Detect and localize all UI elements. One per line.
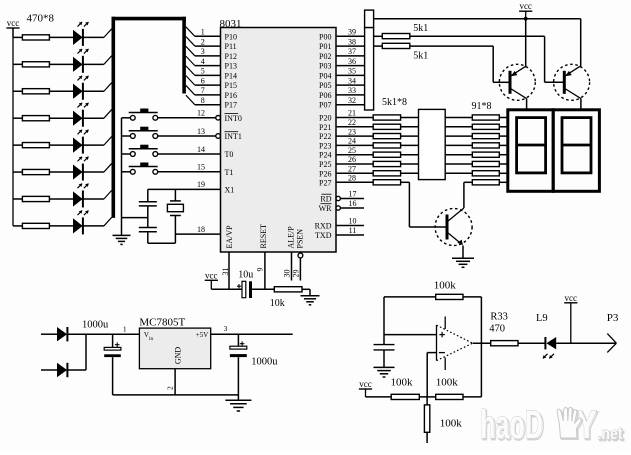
- svg-text:INT1: INT1: [225, 132, 242, 141]
- LED D5: [73, 130, 89, 154]
- wire pin 37 P02 to network RP1: [336, 55, 365, 57]
- wire RN91-1 to display: [499, 117, 508, 119]
- wire RP2-8 to Q3 base: [401, 182, 446, 227]
- svg-text:14: 14: [197, 145, 205, 154]
- pin number 14: [197, 145, 205, 154]
- wire RP1 common to VCC rail: [374, 18, 581, 20]
- svg-text:18: 18: [197, 225, 205, 234]
- pin number 13: [197, 127, 205, 136]
- wire RN91-8 to display: [499, 181, 508, 183]
- svg-text:P10: P10: [225, 32, 237, 41]
- pin number 34: [348, 76, 356, 85]
- pin number 19: [197, 180, 205, 189]
- wire Q3 emitter to ground: [462, 246, 464, 259]
- ground power supply: [225, 395, 251, 411]
- svg-text:10u: 10u: [238, 270, 253, 281]
- P1 bus left vertical: [112, 17, 116, 218]
- pin name RD: [320, 194, 331, 203]
- resistor network RP1 top segment: [365, 10, 374, 28]
- pin name P26: [319, 169, 331, 178]
- pin number 37: [348, 47, 356, 56]
- wire inverting input: [427, 353, 436, 397]
- pin name WR: [319, 204, 333, 213]
- svg-text:T1: T1: [225, 168, 234, 177]
- wire Q1 emitter: [525, 19, 527, 68]
- pin number 24: [348, 137, 356, 146]
- svg-text:3: 3: [201, 47, 205, 56]
- wire pin 18 X2: [175, 233, 220, 235]
- wire pin 36 P03 to network RP1: [336, 65, 365, 67]
- pin number 8: [201, 96, 205, 105]
- wire Q3 collector to RN91-8: [464, 182, 472, 208]
- pin name P05: [319, 81, 331, 90]
- capacitor C4 1000u: [104, 334, 121, 395]
- resistor RP2-7 5k1: [373, 171, 400, 176]
- resistor RN91-3 91: [472, 134, 499, 139]
- pin name P27: [319, 178, 331, 187]
- pin name INT0: [225, 114, 242, 123]
- wire pin 17 RD: [336, 196, 364, 200]
- pin number 29 rotated: [291, 270, 300, 278]
- resistor R4 470: [13, 116, 73, 121]
- pin name RXD: [315, 222, 332, 231]
- svg-text:24: 24: [348, 137, 356, 146]
- pin name INT1: [225, 132, 242, 141]
- svg-text:15: 15: [197, 163, 205, 172]
- resistor 100k vertical: [424, 397, 462, 443]
- pin name P20: [319, 114, 331, 123]
- svg-text:RXD: RXD: [315, 222, 332, 231]
- wire pin 31 EA/VP: [228, 252, 230, 289]
- switch S2: [122, 127, 158, 139]
- pin number 31 rotated: [221, 268, 230, 276]
- resistor R7 470: [13, 196, 73, 201]
- wire buffer to RN91-1: [445, 117, 472, 119]
- resistor RN91-7 91: [472, 171, 499, 176]
- svg-text:haoD: haoD: [480, 403, 543, 447]
- ground C6: [374, 367, 395, 377]
- pin name RESET rotated: [259, 224, 268, 249]
- wire LED D5 cathode to bus entry: [83, 137, 112, 146]
- wire pin 2 regulator down: [174, 369, 176, 395]
- resistor R3 470: [13, 89, 73, 94]
- ground reset circuit: [301, 296, 320, 305]
- svg-text:10: 10: [349, 216, 357, 225]
- svg-text:12: 12: [197, 109, 205, 118]
- wire pin 35 P04 to network RP1: [336, 74, 365, 76]
- svg-text:P07: P07: [319, 101, 331, 110]
- svg-text:P15: P15: [225, 81, 237, 90]
- svg-text:28: 28: [348, 174, 356, 183]
- wire pin 24 P23: [336, 144, 373, 146]
- svg-text:vcc: vcc: [565, 293, 578, 303]
- svg-text:P27: P27: [319, 178, 331, 187]
- LED L9: [536, 313, 556, 359]
- svg-text:GND: GND: [173, 347, 182, 365]
- wire D9 to regulator: [67, 333, 139, 335]
- svg-text:vcc: vcc: [359, 379, 372, 389]
- svg-text:P17: P17: [225, 101, 237, 110]
- capacitor C6: [374, 335, 395, 368]
- pin name T0: [225, 150, 234, 159]
- pin number 32: [348, 96, 356, 105]
- wire feedback right down: [480, 297, 482, 397]
- svg-text:470: 470: [489, 323, 505, 334]
- op 8031 MCU U1 body: [221, 28, 337, 253]
- resistor R6 470: [13, 169, 73, 174]
- resistor RN91-6 91: [472, 161, 499, 166]
- svg-text:35: 35: [348, 67, 356, 76]
- pin number 11: [349, 226, 357, 235]
- wire bus exit to pin 5 P14: [186, 66, 221, 76]
- resistor 100k feedback: [384, 279, 481, 299]
- pin name P02: [319, 52, 331, 61]
- svg-text:31: 31: [221, 268, 230, 276]
- wire Q2 emitter: [580, 19, 582, 68]
- svg-text:27: 27: [348, 165, 356, 174]
- svg-text:26: 26: [348, 155, 356, 164]
- wire pin 39 P00 to network RP1: [336, 35, 365, 37]
- pin name P14: [225, 71, 237, 80]
- svg-text:16: 16: [349, 199, 357, 208]
- VCC symbol left rail: [6, 18, 19, 37]
- svg-text:MC7805T: MC7805T: [139, 316, 185, 328]
- svg-text:5k1*8: 5k1*8: [382, 97, 407, 108]
- svg-text:10k: 10k: [270, 298, 285, 309]
- pin name P06: [319, 91, 331, 100]
- resistor 100k bias left: [366, 377, 436, 400]
- wire RN91-4 to display: [499, 144, 508, 146]
- pin number 1 regulator: [123, 325, 127, 334]
- resistor R2 470: [13, 62, 73, 67]
- wire pin 30 ALE/P: [291, 252, 293, 281]
- svg-text:P06: P06: [319, 91, 331, 100]
- wire bus exit to pin 3 P12: [186, 46, 221, 56]
- pin name P03: [319, 62, 331, 71]
- svg-text:P01: P01: [319, 42, 331, 51]
- wire RP2-6 to buffer: [401, 163, 419, 165]
- pin number 39: [348, 28, 356, 37]
- svg-text:100k: 100k: [434, 279, 457, 291]
- svg-text:100k: 100k: [440, 418, 463, 430]
- svg-text:P16: P16: [225, 91, 237, 100]
- wire 5k1 upper to Q2 base: [410, 36, 564, 82]
- wire feedback left down: [383, 297, 385, 335]
- wire LED D2 cathode to bus entry: [83, 56, 112, 65]
- LED D6: [73, 157, 89, 181]
- wire pin 23 P22: [336, 135, 373, 137]
- wire pin 21 P20: [336, 117, 373, 119]
- pin number 1: [201, 28, 205, 37]
- wire pin 25 P24: [336, 154, 373, 156]
- svg-text:8031: 8031: [220, 18, 242, 30]
- label 5k1*8: [382, 97, 407, 108]
- svg-text:7: 7: [201, 86, 205, 95]
- pin name PSEN rotated: [296, 229, 305, 249]
- wire D10 up to node: [67, 334, 86, 370]
- svg-text:37: 37: [348, 47, 356, 56]
- pin name P12: [225, 52, 237, 61]
- svg-text:P25: P25: [319, 160, 331, 169]
- pin name P23: [319, 141, 331, 150]
- wire C3 to RESET node: [252, 288, 274, 290]
- pin name X1: [225, 185, 235, 194]
- svg-text:100k: 100k: [391, 377, 414, 389]
- resistor RN91-5 91: [472, 152, 499, 157]
- svg-text:P03: P03: [319, 62, 331, 71]
- pin number 18: [197, 225, 205, 234]
- svg-text:1000u: 1000u: [82, 320, 109, 331]
- svg-text:vcc: vcc: [7, 18, 20, 28]
- pin number 33: [348, 86, 356, 95]
- wire RP2-5 to buffer: [401, 154, 419, 156]
- wire power ground rail: [113, 394, 239, 396]
- svg-text:INT0: INT0: [225, 114, 242, 123]
- wire bus exit to pin 6 P15: [186, 76, 221, 86]
- pin name P00: [319, 32, 331, 41]
- VCC symbol reset circuit: [205, 270, 218, 289]
- svg-text:13: 13: [197, 127, 205, 136]
- pin name P07: [319, 101, 331, 110]
- wire pin 22 P21: [336, 126, 373, 128]
- pin name P01: [319, 42, 331, 51]
- LED D2: [73, 49, 89, 73]
- diode D10: [41, 363, 67, 377]
- wire pin 11 TXD: [336, 234, 364, 236]
- pin number 12: [197, 109, 205, 118]
- LED D8: [73, 211, 89, 235]
- pin name P22: [319, 132, 331, 141]
- diode D9: [41, 327, 67, 341]
- wire LED D3 cathode to bus entry: [83, 83, 112, 92]
- value label 470*8: [27, 13, 55, 25]
- svg-text:33: 33: [348, 86, 356, 95]
- svg-text:X1: X1: [225, 185, 235, 194]
- svg-text:TXD: TXD: [315, 231, 332, 240]
- wire pin 29 PSEN: [298, 253, 303, 280]
- wire button common rail: [121, 118, 123, 235]
- svg-text:RESET: RESET: [259, 224, 268, 249]
- svg-text:100k: 100k: [436, 377, 459, 389]
- svg-text:P24: P24: [319, 151, 331, 160]
- pin number 2: [201, 37, 205, 46]
- svg-text:38: 38: [348, 37, 356, 46]
- pin name TXD: [315, 231, 332, 240]
- wire LED D4 cathode to bus entry: [83, 110, 112, 119]
- svg-text:1: 1: [201, 28, 205, 37]
- svg-text:34: 34: [348, 76, 356, 85]
- VCC symbol opamp bias: [359, 379, 372, 397]
- svg-text:5k1: 5k1: [413, 51, 428, 62]
- svg-text:L9: L9: [536, 313, 548, 324]
- wire common to crystal caps: [122, 217, 148, 219]
- pin number 23: [348, 127, 356, 136]
- svg-text:36: 36: [348, 57, 356, 66]
- resistor 10k: [270, 287, 302, 309]
- svg-text:22: 22: [348, 118, 356, 127]
- wire bus exit to pin 2 P11: [186, 37, 221, 47]
- svg-text:P12: P12: [225, 52, 237, 61]
- wire pin 13 INT1: [158, 134, 221, 139]
- pin name P11: [225, 42, 237, 51]
- svg-text:8: 8: [201, 96, 205, 105]
- op MC7805T regulator U2: [139, 316, 210, 368]
- P1 bus right vertical: [182, 17, 186, 94]
- resistor network RP1 body: [365, 28, 374, 110]
- pin name EA/VP rotated: [225, 225, 234, 249]
- wire opamp output: [473, 342, 491, 344]
- pin name P24: [319, 151, 331, 160]
- svg-text:P22: P22: [319, 132, 331, 141]
- svg-text:P13: P13: [225, 62, 237, 71]
- capacitor C1: [139, 189, 157, 227]
- transistor Q2 PNP: [554, 64, 590, 100]
- svg-text:P21: P21: [319, 123, 331, 132]
- pin number 30 rotated: [283, 270, 292, 278]
- resistor RP2-1 5k1: [373, 115, 400, 120]
- wire RN91-3 to display: [499, 135, 508, 137]
- svg-text:32: 32: [348, 96, 356, 105]
- svg-text:2: 2: [166, 386, 175, 390]
- pin number 4: [201, 57, 205, 66]
- resistor RN91-2 91: [472, 124, 499, 129]
- ground Q3: [452, 258, 474, 267]
- resistor R33 470: [489, 312, 545, 346]
- wire pin 26 P25: [336, 163, 373, 165]
- pin number 21: [348, 109, 356, 118]
- wire RN91-6 to display: [499, 163, 508, 165]
- wire bus exit to pin 7 P16: [186, 85, 221, 95]
- pin name P15: [225, 81, 237, 90]
- wire crystal bottom: [148, 242, 176, 244]
- wire Q2 collector to display: [580, 99, 582, 110]
- LED D1: [73, 22, 89, 46]
- pin name P04: [319, 71, 331, 80]
- VCC symbol P3: [564, 293, 577, 343]
- pin number 7: [201, 86, 205, 95]
- wire RN91-7 to display: [499, 172, 508, 174]
- resistor RN91-4 91: [472, 143, 499, 148]
- resistor RP2-5 5k1: [373, 152, 400, 157]
- svg-text:1: 1: [123, 325, 127, 334]
- svg-text:P05: P05: [319, 81, 331, 90]
- label 1000u output: [251, 357, 278, 368]
- svg-text:5k1: 5k1: [413, 23, 428, 34]
- 7-segment display DS1: [508, 110, 553, 192]
- svg-text:470*8: 470*8: [27, 13, 55, 25]
- wire regulator output: [211, 333, 293, 335]
- ground buttons: [113, 235, 131, 244]
- svg-text:P20: P20: [319, 114, 331, 123]
- svg-text:23: 23: [348, 127, 356, 136]
- svg-text:39: 39: [348, 28, 356, 37]
- pin number 25: [348, 146, 356, 155]
- resistor RN91-1 91: [472, 115, 499, 120]
- svg-text:1000u: 1000u: [251, 357, 278, 368]
- LED D4: [73, 103, 89, 127]
- resistor 100k bias right: [436, 377, 482, 400]
- crystal Y1: [167, 189, 183, 243]
- svg-text:91*8: 91*8: [472, 101, 492, 112]
- label 91*8: [472, 101, 492, 112]
- 7-segment display DS2: [553, 110, 599, 192]
- svg-text:vcc: vcc: [205, 270, 218, 280]
- pin number 27: [348, 165, 356, 174]
- pin number 3 regulator: [224, 324, 228, 333]
- pin name P13: [225, 62, 237, 71]
- svg-text:2: 2: [201, 37, 205, 46]
- LED D3: [73, 76, 89, 100]
- svg-text:30: 30: [283, 270, 292, 278]
- pin number 2 rotated: [166, 386, 175, 390]
- pin number 5: [201, 67, 205, 76]
- svg-text:vcc: vcc: [519, 1, 532, 11]
- resistor RP2-6 5k1: [373, 161, 400, 166]
- wire noninverting input: [384, 334, 437, 336]
- wire VCC rail vertical: [12, 28, 14, 226]
- wire RN91-5 to display: [499, 154, 508, 156]
- wire pin 16 WR: [336, 206, 364, 210]
- resistor RP2-8 5k1: [373, 180, 400, 185]
- wire RN91-2 to display: [499, 126, 508, 128]
- resistor 5k1 upper: [374, 23, 429, 39]
- wire pin 15 T1: [158, 171, 221, 173]
- pin name P21: [319, 123, 331, 132]
- wire buffer to RN91-5: [445, 154, 472, 156]
- pin name P17: [225, 101, 237, 110]
- svg-text:11: 11: [349, 226, 357, 235]
- svg-text:.net: .net: [598, 424, 623, 443]
- wire pin 19 X1: [148, 188, 221, 190]
- LED D7: [73, 184, 89, 208]
- pin number 6: [201, 76, 205, 85]
- wire pin 34 P05 to network RP1: [336, 84, 365, 86]
- transistor Q3 NPN: [435, 208, 472, 246]
- wire pin 28 P27: [336, 181, 373, 183]
- pin number 38: [348, 37, 356, 46]
- wire buffer to RN91-7: [445, 172, 472, 174]
- svg-text:4: 4: [201, 57, 205, 66]
- switch S4: [122, 163, 158, 175]
- pin number 22: [348, 118, 356, 127]
- resistor RN91-8 91: [472, 180, 499, 185]
- pin name P25: [319, 160, 331, 169]
- label 1000u input: [82, 320, 109, 331]
- wire Q1 collector to display: [526, 99, 528, 110]
- svg-text:R33: R33: [490, 312, 508, 323]
- pin name P16: [225, 91, 237, 100]
- svg-text:+5V: +5V: [196, 331, 209, 339]
- buffer bar U4: [419, 109, 446, 179]
- pin name P10: [225, 32, 237, 41]
- resistor R5 470: [13, 143, 73, 148]
- svg-text:RD: RD: [320, 195, 331, 204]
- wire pin 14 T0: [158, 153, 221, 155]
- capacitor C3 10u: [237, 270, 253, 299]
- pin number 28: [348, 174, 356, 183]
- pin number 3: [201, 47, 205, 56]
- pin number 26: [348, 155, 356, 164]
- wire RP2-4 to buffer: [401, 144, 419, 146]
- svg-text:19: 19: [197, 180, 205, 189]
- wire 10k to ground: [302, 289, 310, 296]
- wire L9 to P3: [556, 342, 616, 344]
- pin name ALE/P rotated: [287, 226, 296, 249]
- resistor R1 470: [13, 35, 73, 40]
- capacitor C2: [139, 228, 157, 244]
- switch S3: [122, 145, 158, 157]
- VCC symbol transistors: [519, 1, 532, 20]
